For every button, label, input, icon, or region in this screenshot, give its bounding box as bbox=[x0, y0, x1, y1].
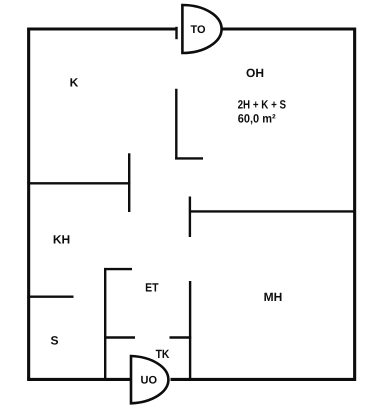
wall: outer left bbox=[27, 28, 30, 381]
svg-text:KH: KH bbox=[53, 233, 70, 247]
wall: OH L-wall horizontal bbox=[175, 157, 203, 159]
wall: outer top, left segment bbox=[27, 27, 177, 30]
svg-text:S: S bbox=[50, 333, 58, 347]
wall: ET/TK right vertical bbox=[189, 281, 191, 380]
svg-text:OH: OH bbox=[246, 66, 264, 80]
wall: outer top, right segment bbox=[222, 27, 356, 30]
wall: outer right bbox=[353, 28, 356, 381]
svg-text:UO: UO bbox=[141, 375, 158, 387]
svg-text:TK: TK bbox=[156, 347, 170, 361]
door UO (bottom door leaf) bbox=[131, 356, 168, 403]
wall: OH L-wall vertical bbox=[175, 89, 177, 160]
door jamb tick left of TO door bbox=[175, 27, 177, 39]
svg-text:K: K bbox=[70, 76, 79, 90]
svg-text:MH: MH bbox=[264, 290, 283, 304]
wall: MH doorway jamb vertical bbox=[189, 197, 191, 238]
svg-text:60,0 m²: 60,0 m² bbox=[238, 112, 276, 126]
wall: ET left vertical bbox=[104, 268, 106, 380]
wall: TK top, left segment bbox=[104, 336, 135, 338]
wall: KH doorway jamb vertical bbox=[128, 153, 130, 212]
wall: ET top horizontal bbox=[104, 268, 132, 270]
door TO (top entrance door leaf) bbox=[182, 5, 221, 53]
svg-text:ET: ET bbox=[145, 280, 159, 294]
wall: outer bottom, left segment bbox=[27, 378, 131, 381]
wall: outer bottom, right segment bbox=[171, 378, 357, 381]
wall: S closet stub horizontal bbox=[27, 296, 73, 298]
svg-text:2H + K + S: 2H + K + S bbox=[238, 97, 287, 111]
wall: MH top horizontal bbox=[189, 210, 356, 212]
svg-text:TO: TO bbox=[190, 24, 206, 36]
wall: TK top, right segment bbox=[170, 336, 192, 338]
wall: K / KH divider horizontal bbox=[27, 182, 130, 184]
